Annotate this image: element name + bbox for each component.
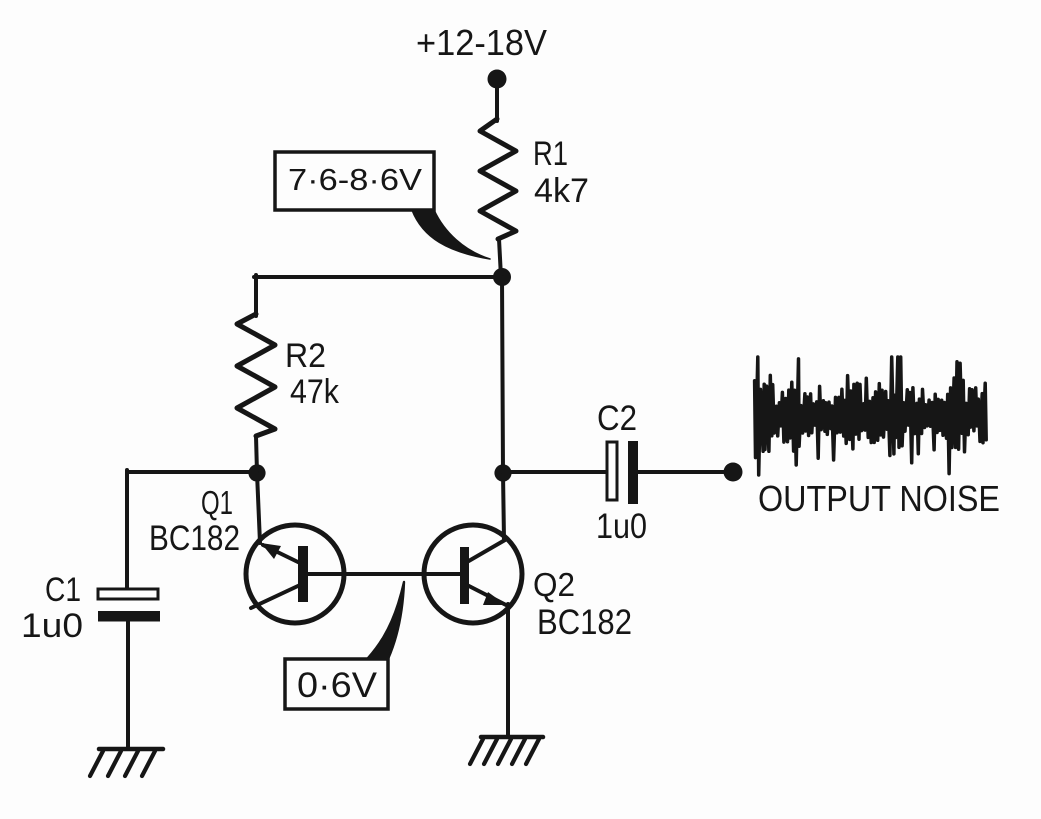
svg-text:4k7: 4k7 (534, 172, 589, 210)
resistor R2 (237, 314, 275, 436)
svg-text:Q1: Q1 (201, 484, 233, 521)
svg-text:0·6V: 0·6V (297, 666, 378, 705)
ground (Q2) (470, 737, 543, 764)
wire node B to Q1 emitter (257, 473, 260, 543)
svg-text:47k: 47k (290, 373, 340, 411)
node B (R2 / C1 / Q1 emitter junction) (248, 464, 265, 481)
wire R2 to node B (256, 436, 257, 473)
svg-text:C1: C1 (45, 571, 81, 609)
svg-text:Q2: Q2 (533, 566, 575, 603)
wire supply to R1 (495, 82, 499, 121)
svg-text:C2: C2 (597, 399, 637, 438)
wire Q2 emitter to ground (506, 604, 510, 737)
wire node C to Q2 collector (503, 473, 504, 540)
wire Q1 base to Q2 base (308, 572, 460, 576)
wire C2 to output terminal (638, 470, 730, 474)
svg-text:R2: R2 (285, 337, 326, 375)
svg-text:BC182: BC182 (537, 603, 632, 642)
wire node A down to node C (502, 277, 503, 473)
wire R1 to node A (499, 239, 501, 277)
callout pointer swoosh to base wire (368, 582, 404, 659)
callout box 0.6V (285, 659, 388, 709)
callout pointer swoosh to node A (412, 210, 490, 259)
capacitor C1 top plate (98, 589, 158, 599)
svg-text:OUTPUT NOISE: OUTPUT NOISE (758, 478, 1000, 519)
callout box 7.6-8.6V (275, 152, 434, 210)
wire node A to R2 top corner (254, 275, 502, 279)
wire C1 to ground (126, 621, 130, 749)
svg-text:R1: R1 (533, 135, 568, 173)
capacitor C2 right plate (628, 441, 638, 504)
output noise waveform (755, 357, 987, 475)
node C (collector / C2 junction) (494, 464, 511, 481)
svg-text:+12-18V: +12-18V (416, 22, 547, 63)
output terminal node (724, 463, 743, 482)
capacitor C1 bottom plate (98, 611, 160, 622)
svg-text:1u0: 1u0 (596, 507, 647, 546)
supply terminal node (488, 70, 507, 89)
wire node B to C1 (127, 470, 257, 474)
transistor Q1 (246, 525, 344, 623)
resistor R1 (480, 119, 516, 239)
svg-text:BC182: BC182 (149, 519, 240, 558)
wire down to C1 top plate (125, 470, 129, 589)
transistor Q2 (424, 525, 522, 623)
ground (C1) (90, 749, 163, 776)
capacitor C2 left plate (607, 442, 617, 500)
svg-text:7·6-8·6V: 7·6-8·6V (288, 162, 422, 197)
wire node C to C2 (503, 470, 607, 474)
wire corner down to R2 (254, 275, 258, 316)
node A (R1 bottom / R2 top junction) (493, 268, 511, 286)
svg-text:1u0: 1u0 (21, 607, 83, 645)
